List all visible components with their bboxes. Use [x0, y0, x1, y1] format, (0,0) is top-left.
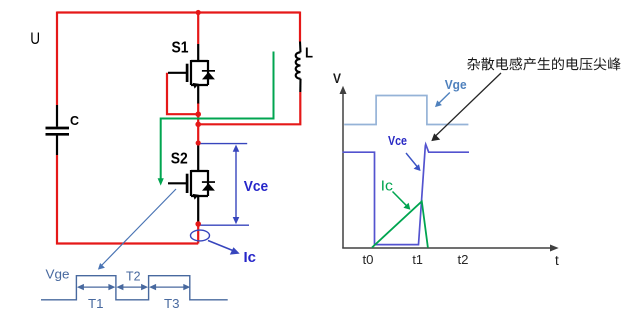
graph V axis — [342, 92, 344, 249]
node dot top rail — [196, 10, 201, 15]
svg-text:Ic: Ic — [381, 178, 393, 194]
svg-text:T3: T3 — [164, 296, 180, 311]
S2 source arrow — [193, 194, 199, 200]
S1 body diode — [202, 70, 215, 79]
annotation text stray-inductance voltage spike — [467, 57, 620, 70]
node dot S2 emitter — [195, 221, 201, 227]
Ic measuring point ellipse — [191, 230, 210, 241]
annotation line S2 gate to timing waveform — [102, 189, 177, 266]
node dot S2 collector — [196, 140, 201, 145]
transistor S2 (switch with body diode) — [168, 145, 208, 224]
Vce dimension lines blue — [201, 144, 250, 226]
node dot S1 emitter junction — [195, 111, 201, 117]
svg-text:T1: T1 — [88, 296, 104, 311]
svg-text:Vce: Vce — [244, 178, 269, 195]
svg-text:Ic: Ic — [244, 249, 257, 266]
transistor S1 (switch with body diode) — [168, 44, 208, 104]
svg-text:Vge: Vge — [46, 267, 70, 282]
wire right rail red with L gap — [198, 12, 300, 125]
wire midpoint red — [197, 103, 199, 145]
svg-text:t1: t1 — [412, 252, 423, 267]
svg-text:t0: t0 — [363, 252, 374, 267]
svg-text:S1: S1 — [172, 39, 189, 56]
graph Vge curve — [344, 96, 468, 125]
S1 source arrow — [193, 83, 199, 89]
graph Vce curve with spike — [343, 144, 470, 244]
wire S2 source red — [197, 223, 199, 244]
svg-text:L: L — [305, 44, 313, 61]
Ic arrow (circuit) — [208, 241, 234, 252]
timing dimension arrows T1 T2 T3 — [80, 286, 186, 288]
wire left rail upper red — [56, 12, 58, 106]
wire top rail red — [57, 11, 300, 13]
svg-text:V: V — [333, 71, 341, 86]
wire S1 drain red — [197, 13, 199, 45]
graph t axis — [342, 247, 551, 249]
graph Vce arrow — [406, 153, 418, 168]
graph Vge arrow — [438, 93, 450, 104]
graph Ic curve — [372, 201, 428, 247]
wire green current path — [161, 52, 274, 181]
inductor L — [296, 42, 301, 93]
green arrowhead — [158, 178, 164, 185]
svg-text:C: C — [70, 113, 80, 128]
svg-text:t2: t2 — [458, 252, 469, 267]
graph Ic arrow — [393, 192, 408, 207]
svg-text:T2: T2 — [126, 268, 141, 283]
gate timing waveform Vge — [41, 276, 228, 300]
svg-text:t: t — [555, 253, 559, 268]
Vce dimension arrowheads — [233, 145, 240, 152]
svg-text:Vge: Vge — [445, 77, 467, 92]
svg-text:U: U — [30, 29, 40, 48]
svg-text:S2: S2 — [171, 151, 188, 168]
node dot midpoint to L — [195, 122, 201, 128]
wire S1 gate-source loop red — [167, 73, 198, 114]
svg-text:Vce: Vce — [388, 134, 407, 148]
wire left rail lower red — [57, 155, 198, 244]
annotation arrow voltage spike — [436, 73, 502, 136]
capacitor C — [46, 105, 70, 155]
S2 body diode — [202, 181, 215, 190]
